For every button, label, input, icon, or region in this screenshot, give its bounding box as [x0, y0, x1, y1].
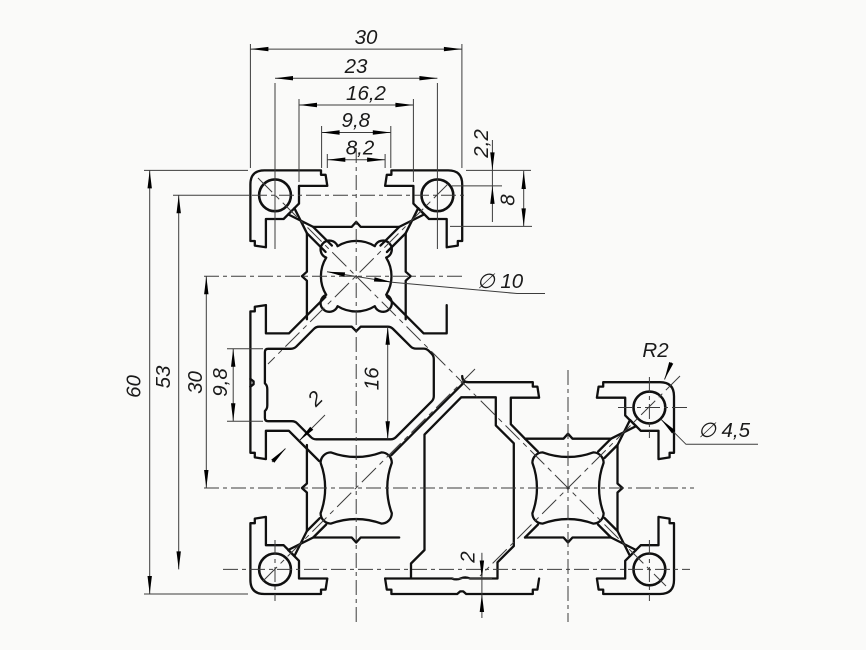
centerline vertical module A — [355, 148, 357, 626]
svg-text:∅ 10: ∅ 10 — [477, 270, 524, 293]
slot back A right — [406, 233, 411, 319]
profile outline: top-right corner boss with lips — [385, 170, 462, 247]
dimension line 30 left — [205, 276, 207, 488]
cavity arm C bottom-right — [598, 525, 636, 551]
diagonal centerline through A anti — [268, 184, 448, 364]
corner hole bottom-left D4.5 — [259, 554, 291, 586]
arrow R2 — [665, 362, 674, 380]
svg-text:∅ 4,5: ∅ 4,5 — [698, 419, 751, 442]
extension line dim 9.8 left — [321, 126, 323, 168]
extension line dim 30 left — [249, 44, 251, 168]
cavity arm B left-lower — [294, 518, 319, 556]
screw channel B (wavy square) — [321, 452, 392, 523]
arrows D10 — [327, 272, 345, 277]
slot back B left — [302, 445, 307, 531]
dimension line 2.2 — [491, 140, 493, 222]
svg-text:8,2: 8,2 — [346, 137, 375, 160]
extension line dim 9.8 left lower — [227, 420, 263, 422]
svg-text:2,2: 2,2 — [470, 129, 493, 159]
arrows dim 23 — [275, 76, 293, 80]
slot back C right — [618, 445, 623, 531]
centerline vertical module C — [567, 370, 569, 622]
cavity edge: A left slot lower wall and web — [266, 297, 326, 334]
dimension line 30 — [250, 48, 462, 50]
dimension line 53 — [178, 195, 180, 569]
junction void B-C with bottom closed slot — [385, 397, 514, 579]
seam notch on left face — [250, 379, 253, 387]
arrows dim 30 — [250, 47, 268, 51]
leader D4.5 — [661, 419, 758, 444]
arrows dim 16.2 — [299, 103, 317, 107]
cavity arm C bottom-left — [525, 525, 538, 538]
bottom-left corner boss with lips — [250, 517, 327, 594]
slot back B bottom — [313, 538, 399, 543]
arrows dim 53 — [177, 195, 181, 213]
arrows dim 16 vertical — [386, 327, 390, 345]
leader 2 middle lower — [272, 449, 286, 463]
diagonal rib corner to module B — [391, 382, 464, 455]
svg-text:30: 30 — [355, 26, 378, 49]
dimension line 16.2 — [299, 104, 413, 106]
profile outline: top-left corner boss with lips — [250, 170, 327, 247]
centerline horizontal top holes — [252, 194, 464, 196]
svg-text:2: 2 — [457, 551, 480, 564]
svg-text:8: 8 — [497, 194, 520, 206]
arrows dim 8.2 — [327, 158, 345, 162]
extension line dim 16.2 right — [412, 99, 414, 182]
svg-text:30: 30 — [184, 371, 207, 394]
diagonal centerline through C anti — [480, 376, 680, 576]
dimension line 9.8 — [322, 132, 391, 134]
corner hole C upper D4.5 — [634, 392, 666, 424]
corner hole top-left D4.5 — [259, 179, 291, 211]
cavity arm C right-upper — [605, 420, 631, 458]
extension line dim 9.8 left upper — [227, 348, 263, 350]
central cavity A-B (16 mm) — [265, 327, 434, 440]
extension line dim 8.2 right — [384, 154, 386, 168]
cavity arm A left-upper — [294, 208, 325, 252]
screw channel C (wavy square) — [532, 452, 603, 523]
svg-text:16: 16 — [361, 367, 384, 390]
centerline vertical top-left hole / dim 23 extension — [274, 83, 276, 249]
dimension line 16 vertical — [387, 327, 389, 440]
cavity arm B bottom-left — [288, 525, 326, 551]
arrows dim 2.2 — [490, 152, 494, 170]
diagonal centerline through B anti — [262, 369, 475, 582]
slot back C top — [525, 434, 611, 439]
top face of C with left lip — [462, 376, 539, 439]
cavity arm C top-right — [598, 426, 636, 451]
arrows dim 30 left — [204, 276, 208, 294]
extension line dim 16.2 left — [298, 99, 300, 182]
arrows dim 9.8 left — [231, 349, 235, 367]
centerline horizontal bottom holes / dim 53 extension — [223, 568, 690, 570]
arrows dim 9.8 — [322, 130, 340, 134]
extension line dim 60 bottom — [144, 593, 248, 595]
C bottom-right corner boss with lips — [597, 517, 674, 594]
svg-text:9,8: 9,8 — [209, 368, 232, 397]
leader 2 middle upper — [299, 415, 325, 441]
cavity arm C top-left — [525, 439, 538, 452]
centerline vertical bottom-left hole — [274, 540, 276, 601]
extension line dim 8 bottom — [450, 225, 532, 227]
svg-text:R2: R2 — [642, 339, 669, 362]
centerline vertical top-right hole / dim 23 extension — [436, 83, 438, 249]
centerline horizontal C upper hole — [618, 407, 690, 409]
extension line dim 60 top — [144, 169, 248, 171]
corner hole C lower D4.5 — [634, 554, 666, 586]
svg-text:9,8: 9,8 — [342, 109, 371, 132]
arrows dim 60 — [148, 170, 152, 188]
extension line dim 9.8 right — [390, 126, 392, 168]
extension line dim 2 bottom upper — [452, 578, 492, 580]
slot back A top — [313, 222, 399, 227]
dimension line 60 — [149, 170, 151, 594]
centerline horizontal module A / dim 30 extension — [204, 275, 463, 277]
extension line dim 8.2 left — [326, 154, 328, 168]
dimension line 2 bottom — [481, 553, 483, 618]
C top-right corner boss with lips — [597, 382, 674, 459]
cavity edge: A right slot lower wall and web — [387, 297, 447, 334]
cavity arm A top-right — [381, 214, 425, 245]
slot back C bottom — [525, 538, 611, 543]
cavity arm A right-upper — [387, 208, 418, 252]
svg-text:60: 60 — [123, 375, 146, 398]
svg-text:53: 53 — [152, 365, 175, 388]
dimension line 23 — [275, 77, 437, 79]
extension line dim 2.2 top — [466, 169, 531, 171]
arrow D4.5 — [661, 419, 675, 433]
cavity arm A top-left — [288, 214, 332, 245]
leader D10 — [327, 272, 545, 294]
left face between A and B (closed slot) with lips — [250, 305, 319, 461]
corner hole top-right D4.5 — [422, 179, 454, 211]
leader R2 — [665, 363, 672, 380]
svg-text:16,2: 16,2 — [346, 82, 386, 105]
extension line dim 2.2 bottom — [452, 185, 502, 187]
centerline vertical C lower hole — [648, 540, 650, 601]
centerline horizontal modules B C / dim 30 extension — [204, 487, 694, 489]
dimension line 8 — [523, 171, 525, 226]
diagonal centerline TL-BR — [258, 178, 666, 586]
extension line dim 53 top — [173, 194, 250, 196]
dimension line 9.8 left — [232, 349, 234, 421]
arrows dim 8 — [522, 171, 526, 189]
screw channel A (circle D10 with ear bulbs) — [321, 241, 392, 312]
extension line dim 30 right — [461, 44, 463, 168]
bottom face between B and C lips with seam notch — [385, 579, 539, 595]
arrows 2 middle — [299, 427, 313, 441]
centerline vertical C upper hole — [648, 377, 650, 438]
dimension line 8.2 — [327, 159, 385, 161]
slot back A left — [302, 233, 307, 319]
svg-text:23: 23 — [344, 55, 368, 78]
cavity arm C right-lower — [605, 518, 631, 556]
arrows dim 2 bottom — [480, 561, 484, 579]
